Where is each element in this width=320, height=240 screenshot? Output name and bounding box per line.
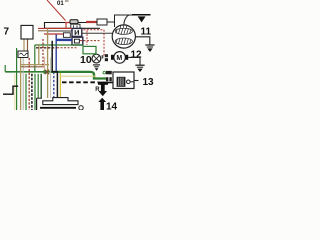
svg-text:M: M bbox=[116, 55, 122, 62]
svg-text:01: 01 bbox=[57, 1, 64, 7]
svg-text:7: 7 bbox=[4, 27, 10, 38]
svg-text:R: R bbox=[95, 87, 100, 93]
svg-text:14: 14 bbox=[106, 101, 118, 110]
svg-text:10: 10 bbox=[80, 54, 92, 66]
svg-text:11: 11 bbox=[141, 27, 152, 38]
svg-text:13: 13 bbox=[143, 77, 155, 88]
